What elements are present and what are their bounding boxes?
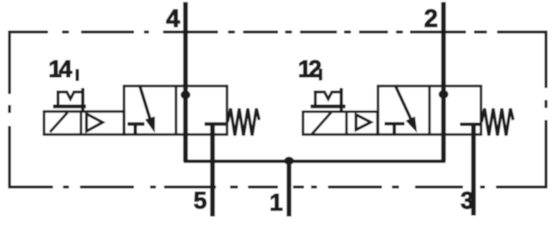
port 3 line [471,125,476,216]
valve V1 manual override [53,88,86,112]
port 3 label [461,192,473,209]
valve V1 position-b blocked port [205,122,227,125]
port 5 label [194,192,206,209]
valve V2 position-a blocked port [385,124,405,134]
valve V1 position-b flow arrow up [181,90,191,99]
valve V1 solenoid coil A1 [44,112,124,135]
valve V2 manual override [311,88,346,112]
valve V2 label 12 [300,60,321,77]
enclosure dash-dot border top [8,31,547,34]
valve V1 body [124,86,227,135]
valve V2 pilot triangle [356,115,371,130]
internal supply wire (horizontal) [184,160,446,163]
enclosure dash-dot border left [8,31,11,189]
port 5 line [210,125,215,217]
valve V1 pilot triangle [87,114,103,131]
port 2 label [425,9,437,27]
valve V2 position-b blocked port [460,123,481,126]
valve V2 pilot tick 12 [319,69,322,81]
valve V2 position-a flow arrow [396,86,412,121]
enclosure dash-dot border bottom [8,186,547,189]
port 4 line [183,2,188,162]
port 4 label [166,10,179,27]
valve V2 return spring [482,109,514,136]
valve V2 position-b flow arrow up [439,90,449,99]
port 1 label [271,194,282,211]
valve V2 body [378,86,481,135]
valve V1 pilot tick 14 [76,69,79,81]
valve V1 position-a flow arrow [140,87,150,120]
node junction at port 1 [284,157,294,165]
valve V1 label 14 [50,61,72,78]
valve V1 return spring [228,109,260,136]
port 1 line [287,161,292,217]
valve V2 solenoid coil A2 [303,112,378,135]
port 2 line [441,2,446,162]
valve V1 position-a blocked port [128,124,145,134]
enclosure dash-dot border right [545,31,548,189]
